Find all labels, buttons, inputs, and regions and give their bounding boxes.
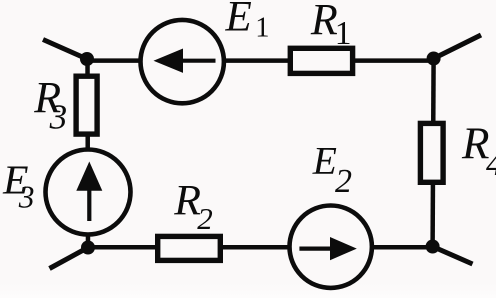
svg-text:4: 4 bbox=[486, 146, 496, 183]
node B (top-right junction) bbox=[427, 52, 441, 66]
node D (bottom-left junction) bbox=[81, 241, 95, 255]
wire: bottom horizontal net (node D to node C) bbox=[88, 245, 433, 250]
svg-text:1: 1 bbox=[335, 15, 352, 52]
svg-text:3: 3 bbox=[18, 180, 35, 215]
label R2 bbox=[173, 177, 213, 237]
wire: top-left terminal stub bbox=[43, 40, 87, 60]
resistor R3 bbox=[76, 76, 97, 134]
svg-text:E: E bbox=[312, 138, 337, 182]
label E1 bbox=[225, 0, 270, 43]
source E3 (EMF source, arrow pointing up) bbox=[46, 150, 131, 235]
node C (bottom-right junction) bbox=[426, 240, 440, 254]
resistor R4 bbox=[420, 123, 443, 182]
resistor R2 bbox=[158, 236, 221, 260]
svg-text:2: 2 bbox=[335, 163, 352, 200]
svg-text:3: 3 bbox=[49, 98, 68, 137]
resistor R1 bbox=[290, 48, 352, 73]
label R4 bbox=[461, 119, 496, 183]
label E3 bbox=[2, 156, 34, 214]
svg-text:R: R bbox=[310, 0, 338, 44]
wire: right vertical branch (node B to node C) bbox=[433, 59, 434, 247]
svg-text:E: E bbox=[225, 0, 252, 41]
svg-text:2: 2 bbox=[197, 201, 213, 236]
source E2 (EMF source, arrow pointing right) bbox=[290, 206, 372, 288]
wire: left vertical branch (node A to node D) bbox=[85, 59, 90, 248]
label R1 bbox=[310, 0, 352, 52]
wire: top-right terminal stub bbox=[434, 35, 481, 59]
label R3 bbox=[33, 73, 67, 137]
node A (top-left junction) bbox=[80, 52, 94, 66]
wire: top horizontal net (node A to node B) bbox=[87, 58, 433, 63]
wire: bottom-left terminal stub bbox=[50, 248, 89, 269]
wire: bottom-right terminal stub bbox=[433, 247, 473, 265]
label E2 bbox=[312, 138, 352, 200]
source E1 (EMF source, arrow pointing left) bbox=[141, 20, 224, 103]
svg-text:1: 1 bbox=[255, 12, 269, 43]
